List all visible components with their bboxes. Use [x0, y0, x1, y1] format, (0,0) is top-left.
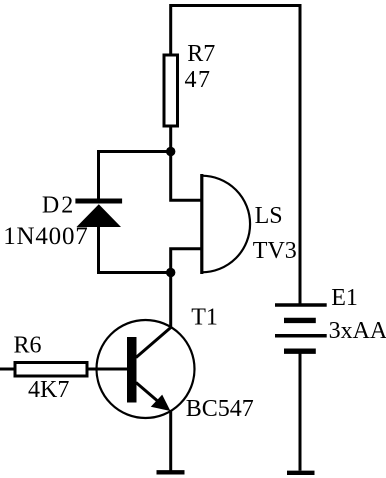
svg-text:R7: R7	[187, 41, 215, 67]
svg-text:BC547: BC547	[186, 396, 254, 422]
svg-text:47: 47	[185, 67, 212, 93]
svg-text:1N4007: 1N4007	[3, 223, 88, 250]
svg-text:D2: D2	[42, 193, 75, 219]
svg-text:4K7: 4K7	[28, 377, 69, 403]
svg-text:T1: T1	[191, 304, 218, 330]
svg-text:TV3: TV3	[253, 238, 297, 264]
svg-text:LS: LS	[255, 203, 283, 229]
svg-text:R6: R6	[14, 333, 42, 359]
svg-text:E1: E1	[331, 285, 358, 311]
svg-text:3xAA: 3xAA	[329, 318, 386, 344]
